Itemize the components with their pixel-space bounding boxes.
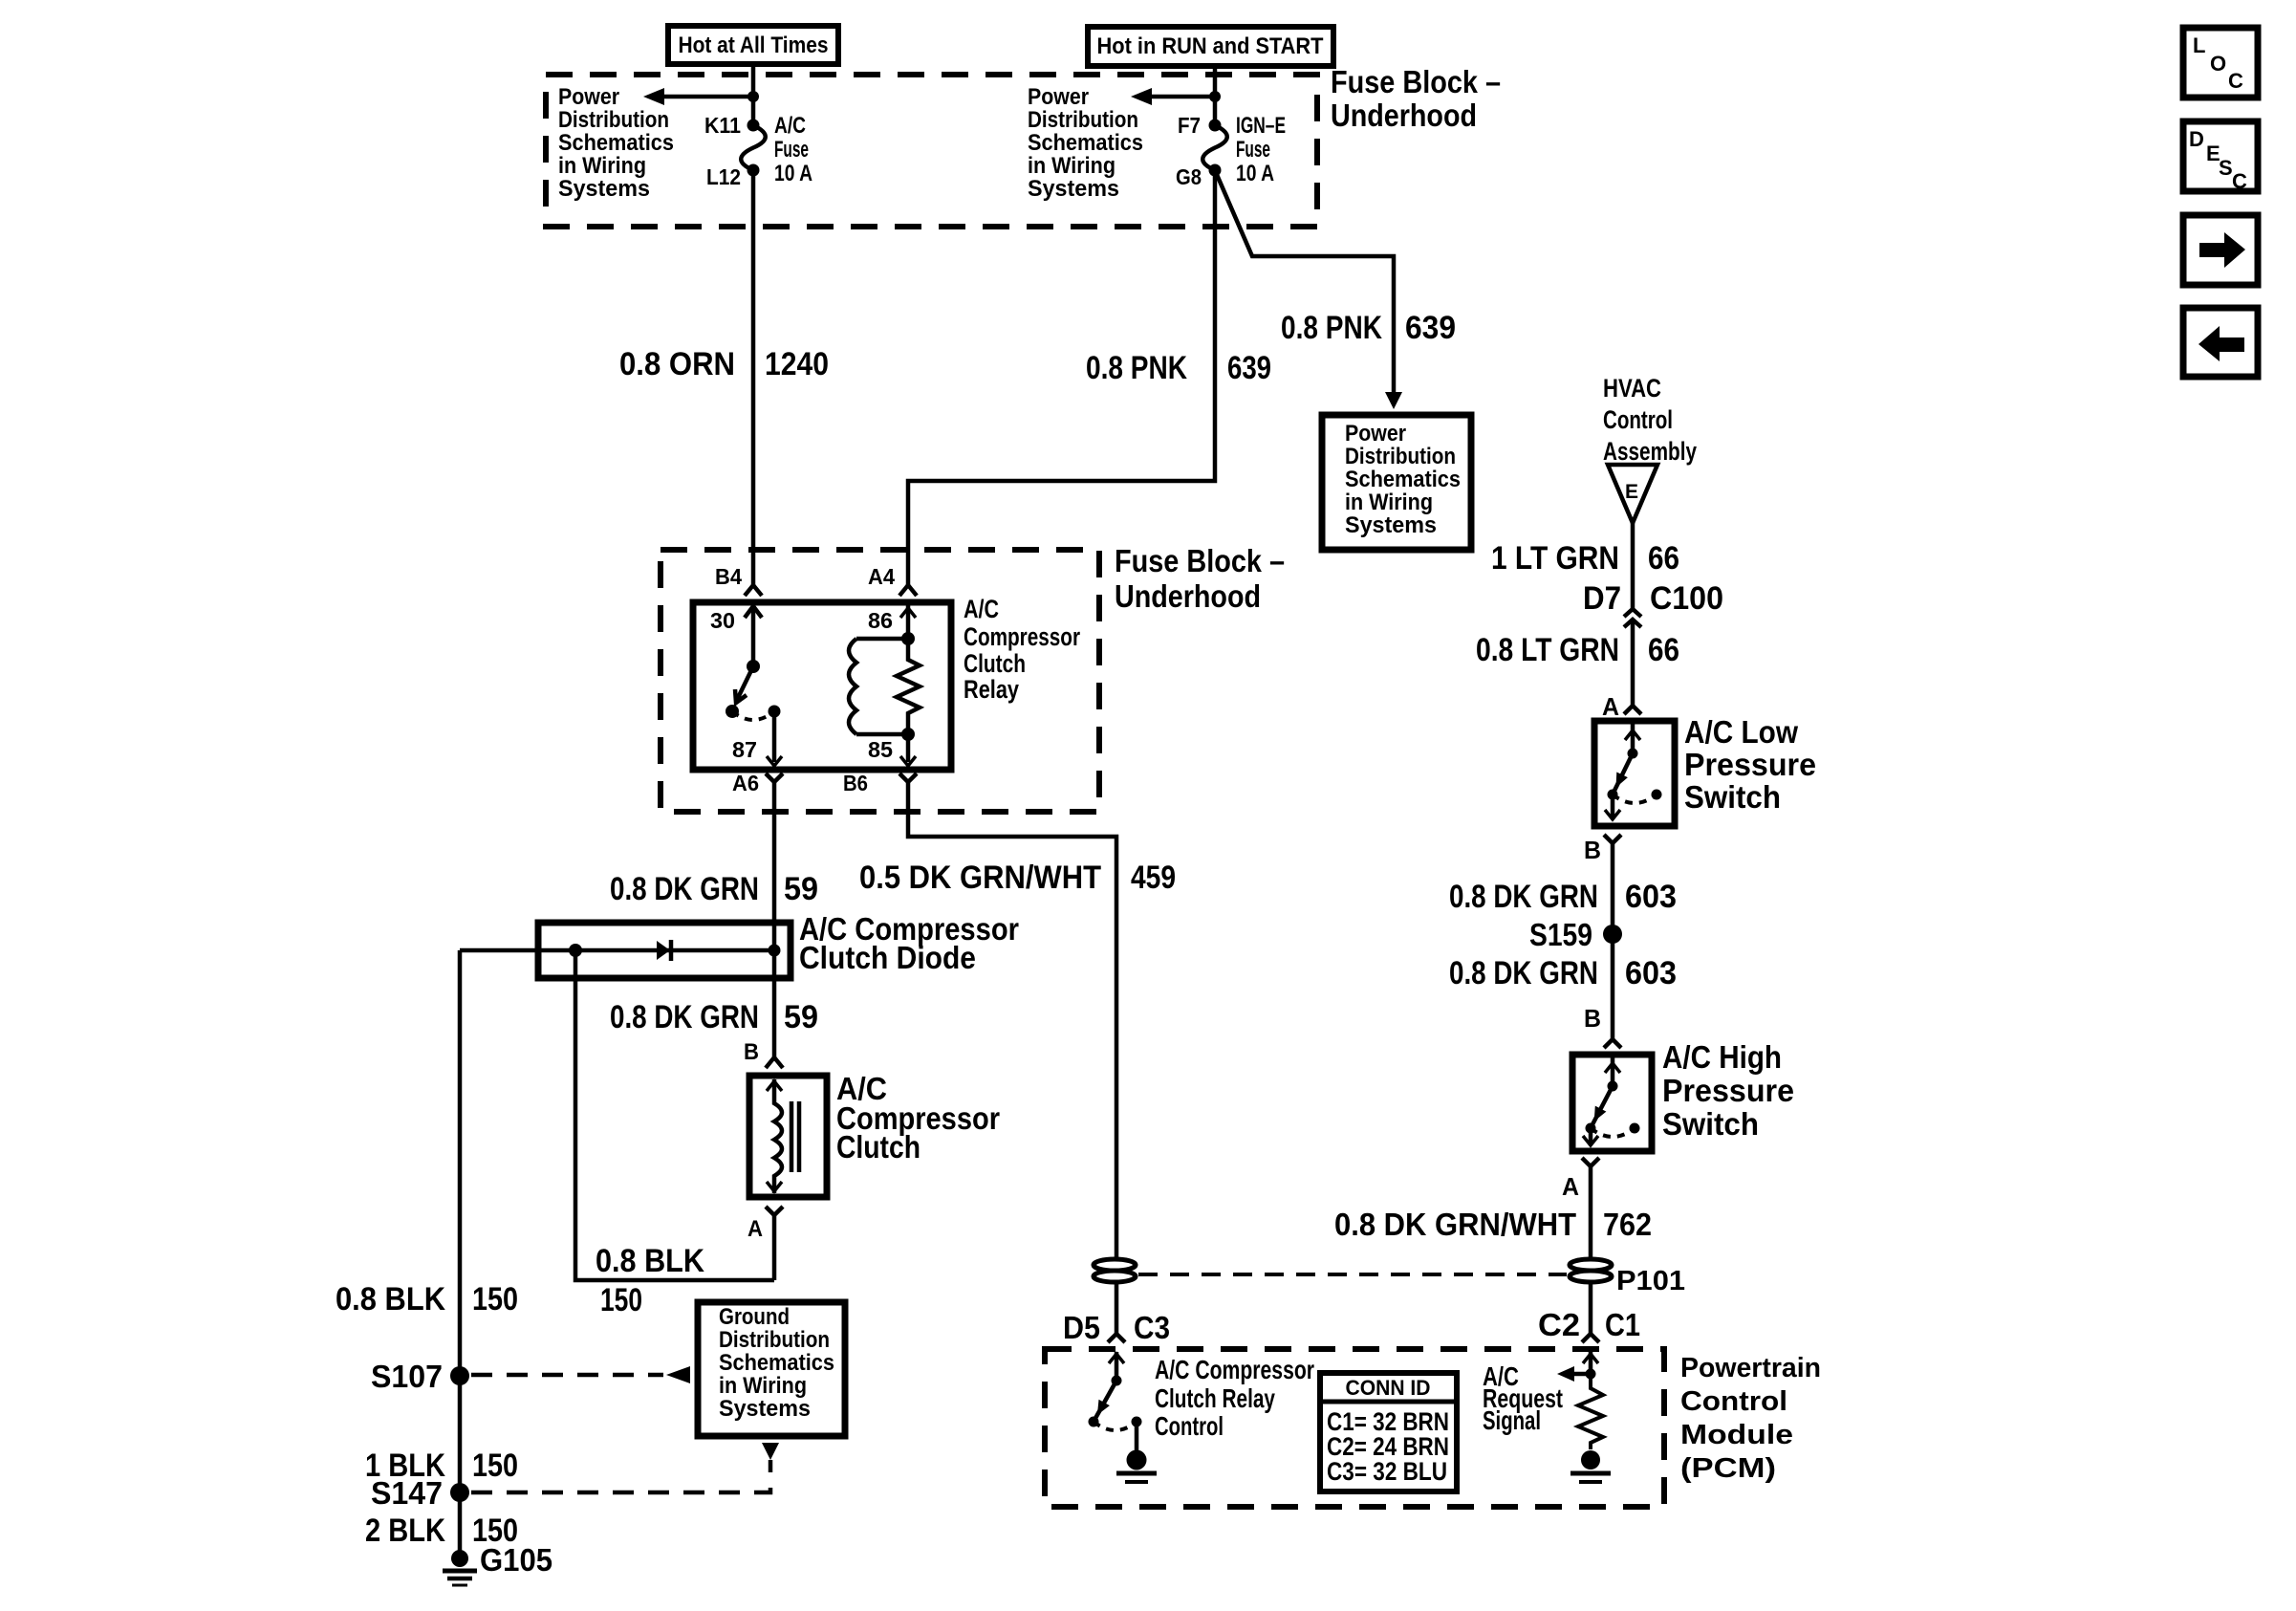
svg-text:B: B — [1584, 1004, 1601, 1033]
svg-text:B4: B4 — [715, 564, 742, 589]
svg-text:C2: C2 — [1538, 1307, 1580, 1342]
svg-text:762: 762 — [1603, 1207, 1652, 1242]
svg-text:A/C Compressor: A/C Compressor — [1155, 1355, 1314, 1384]
svg-text:Systems: Systems — [719, 1396, 811, 1422]
svg-text:459: 459 — [1131, 860, 1176, 896]
svg-text:Hot in RUN and START: Hot in RUN and START — [1097, 33, 1324, 59]
svg-text:639: 639 — [1405, 310, 1456, 346]
svg-text:D: D — [2189, 127, 2204, 151]
svg-text:Schematics: Schematics — [558, 130, 674, 156]
svg-text:S: S — [2219, 156, 2233, 180]
svg-text:K11: K11 — [704, 113, 741, 138]
svg-text:B6: B6 — [843, 771, 868, 795]
svg-text:Distribution: Distribution — [1028, 107, 1138, 133]
svg-text:E: E — [1625, 481, 1638, 503]
svg-text:B: B — [1584, 836, 1601, 864]
svg-text:in Wiring: in Wiring — [1028, 153, 1116, 179]
svg-text:Fuse: Fuse — [1236, 137, 1270, 163]
svg-text:Pressure: Pressure — [1662, 1073, 1794, 1108]
svg-text:S107: S107 — [371, 1359, 443, 1394]
svg-text:G8: G8 — [1176, 164, 1202, 189]
svg-text:A: A — [747, 1216, 763, 1242]
svg-text:Switch: Switch — [1684, 779, 1781, 815]
svg-text:Systems: Systems — [1028, 176, 1119, 202]
svg-text:603: 603 — [1625, 955, 1677, 991]
svg-text:10 A: 10 A — [1236, 161, 1274, 186]
svg-text:C3: C3 — [1134, 1310, 1170, 1345]
svg-text:85: 85 — [868, 737, 893, 762]
svg-text:0.8 DK GRN: 0.8 DK GRN — [610, 999, 759, 1035]
svg-text:639: 639 — [1227, 350, 1271, 386]
svg-text:Signal: Signal — [1483, 1405, 1541, 1435]
svg-text:Power: Power — [1028, 84, 1089, 110]
svg-text:S159: S159 — [1529, 917, 1592, 952]
svg-text:IGN–E: IGN–E — [1236, 113, 1286, 139]
svg-text:in Wiring: in Wiring — [1345, 490, 1433, 515]
svg-text:Control: Control — [1680, 1386, 1787, 1417]
svg-text:CONN ID: CONN ID — [1346, 1376, 1431, 1400]
svg-text:Distribution: Distribution — [719, 1327, 830, 1353]
svg-text:Clutch Diode: Clutch Diode — [799, 940, 976, 975]
svg-text:Schematics: Schematics — [719, 1350, 834, 1376]
svg-text:A/C Low: A/C Low — [1684, 714, 1798, 750]
svg-text:87: 87 — [732, 737, 757, 762]
svg-text:Fuse: Fuse — [774, 137, 809, 163]
svg-text:86: 86 — [868, 608, 893, 633]
svg-text:Assembly: Assembly — [1603, 437, 1697, 466]
svg-text:A4: A4 — [868, 564, 895, 589]
svg-text:A/C: A/C — [964, 595, 999, 623]
svg-text:Relay: Relay — [964, 675, 1019, 704]
svg-text:(PCM): (PCM) — [1680, 1453, 1776, 1484]
svg-text:in Wiring: in Wiring — [558, 153, 646, 179]
svg-text:C3= 32 BLU: C3= 32 BLU — [1327, 1457, 1447, 1486]
svg-text:0.8 DK GRN: 0.8 DK GRN — [1449, 879, 1598, 915]
svg-text:S147: S147 — [371, 1475, 443, 1511]
svg-text:Distribution: Distribution — [1345, 444, 1456, 469]
svg-text:A6: A6 — [732, 771, 759, 795]
svg-text:150: 150 — [600, 1282, 642, 1318]
svg-text:Module: Module — [1680, 1420, 1793, 1450]
svg-text:A: A — [1562, 1172, 1579, 1201]
svg-text:A/C: A/C — [774, 113, 806, 139]
svg-text:Switch: Switch — [1662, 1106, 1759, 1142]
svg-text:C: C — [2228, 69, 2243, 93]
svg-text:P101: P101 — [1616, 1266, 1685, 1296]
svg-text:66: 66 — [1648, 540, 1679, 577]
svg-text:0.8 PNK: 0.8 PNK — [1086, 350, 1187, 386]
svg-text:A: A — [1602, 692, 1619, 721]
svg-text:Powertrain: Powertrain — [1680, 1353, 1821, 1383]
svg-text:Fuse Block –: Fuse Block – — [1115, 543, 1285, 578]
svg-text:0.8 PNK: 0.8 PNK — [1281, 310, 1382, 346]
svg-text:Pressure: Pressure — [1684, 747, 1816, 782]
svg-text:Systems: Systems — [558, 176, 650, 202]
svg-text:150: 150 — [472, 1281, 518, 1317]
svg-text:Schematics: Schematics — [1345, 467, 1461, 492]
svg-text:30: 30 — [710, 608, 735, 633]
svg-text:Control: Control — [1155, 1411, 1224, 1441]
svg-text:L: L — [2193, 33, 2205, 57]
svg-text:2 BLK: 2 BLK — [365, 1513, 445, 1549]
svg-text:0.8 BLK: 0.8 BLK — [336, 1281, 445, 1317]
svg-text:D7: D7 — [1583, 580, 1621, 617]
svg-text:L12: L12 — [706, 164, 741, 189]
svg-text:G105: G105 — [480, 1542, 552, 1578]
svg-text:Compressor: Compressor — [964, 622, 1080, 651]
svg-text:C1: C1 — [1605, 1307, 1640, 1342]
svg-text:Clutch: Clutch — [836, 1129, 921, 1165]
svg-text:59: 59 — [784, 871, 818, 907]
svg-text:Systems: Systems — [1345, 512, 1437, 538]
svg-text:Power: Power — [558, 84, 619, 110]
svg-text:C: C — [2232, 169, 2247, 193]
svg-text:Power: Power — [1345, 421, 1406, 446]
svg-text:Underhood: Underhood — [1331, 98, 1477, 133]
svg-text:1 LT GRN: 1 LT GRN — [1491, 540, 1619, 577]
svg-text:Ground: Ground — [719, 1304, 790, 1330]
svg-text:O: O — [2210, 52, 2226, 76]
svg-text:Underhood: Underhood — [1115, 578, 1261, 614]
svg-text:603: 603 — [1625, 879, 1677, 915]
svg-text:66: 66 — [1648, 632, 1679, 668]
svg-text:Distribution: Distribution — [558, 107, 669, 133]
svg-text:10 A: 10 A — [774, 161, 812, 186]
svg-text:0.5 DK GRN/WHT: 0.5 DK GRN/WHT — [859, 860, 1101, 896]
svg-text:Control: Control — [1603, 405, 1673, 434]
svg-text:0.8 BLK: 0.8 BLK — [596, 1243, 704, 1279]
svg-text:0.8 ORN: 0.8 ORN — [619, 346, 735, 382]
svg-text:B: B — [744, 1039, 759, 1065]
svg-text:F7: F7 — [1178, 113, 1201, 138]
svg-text:1240: 1240 — [765, 346, 829, 382]
svg-text:HVAC: HVAC — [1603, 374, 1661, 403]
svg-text:Clutch Relay: Clutch Relay — [1155, 1383, 1275, 1413]
svg-text:Clutch: Clutch — [964, 649, 1026, 678]
svg-text:Schematics: Schematics — [1028, 130, 1143, 156]
svg-text:150: 150 — [472, 1448, 518, 1484]
svg-text:0.8 DK GRN: 0.8 DK GRN — [1449, 955, 1598, 991]
svg-text:A/C High: A/C High — [1662, 1039, 1782, 1075]
svg-text:C100: C100 — [1650, 580, 1723, 617]
svg-text:59: 59 — [784, 999, 818, 1035]
svg-text:Fuse Block –: Fuse Block – — [1331, 64, 1501, 99]
svg-text:D5: D5 — [1063, 1310, 1100, 1345]
svg-text:Hot at All Times: Hot at All Times — [679, 33, 829, 58]
svg-text:0.8 DK GRN/WHT: 0.8 DK GRN/WHT — [1334, 1207, 1576, 1242]
svg-text:0.8 LT GRN: 0.8 LT GRN — [1476, 632, 1619, 668]
svg-text:in Wiring: in Wiring — [719, 1373, 807, 1399]
svg-text:0.8 DK GRN: 0.8 DK GRN — [610, 871, 759, 907]
